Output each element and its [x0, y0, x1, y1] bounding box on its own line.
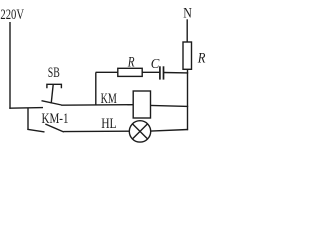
svg-text:HL: HL: [101, 116, 116, 132]
svg-text:R: R: [127, 54, 135, 70]
svg-text:N: N: [183, 5, 192, 21]
svg-text:220V: 220V: [0, 7, 24, 23]
svg-text:KM-1: KM-1: [42, 111, 69, 127]
svg-text:C: C: [151, 56, 161, 71]
svg-text:SB: SB: [48, 65, 60, 81]
svg-text:R: R: [197, 51, 206, 67]
svg-text:KM: KM: [101, 91, 117, 107]
